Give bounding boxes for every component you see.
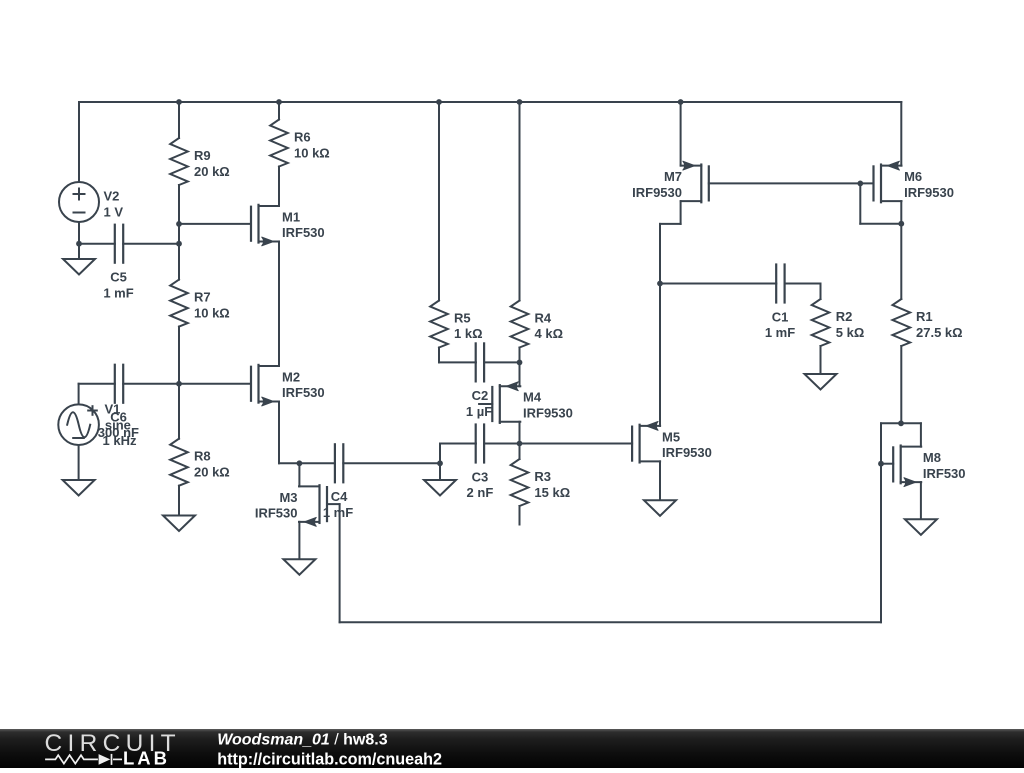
svg-text:C6: C6 (110, 409, 127, 424)
svg-text:R3: R3 (534, 469, 551, 484)
svg-text:15 kΩ: 15 kΩ (534, 485, 570, 500)
svg-text:V2: V2 (104, 189, 120, 204)
node R1-M8 (898, 420, 904, 426)
node C5-R7 (176, 241, 182, 247)
svg-text:R6: R6 (294, 130, 311, 145)
svg-text:IRF9530: IRF9530 (904, 185, 954, 200)
wire M8 source lead (920, 482, 922, 519)
svg-text:M6: M6 (904, 169, 922, 184)
capacitor C1 (775, 265, 777, 303)
wire R6 bottom lead (278, 167, 280, 206)
svg-text:R8: R8 (194, 449, 211, 464)
wire V1 bottom lead (78, 445, 80, 480)
wire M3 gate down (339, 504, 341, 622)
transistor M8 IRF530 (892, 447, 894, 481)
svg-text:R4: R4 (535, 310, 552, 325)
ground M8 (905, 519, 937, 535)
node rail-R4 (517, 99, 523, 105)
wire R9 bottom lead (178, 185, 180, 224)
ground V2 (63, 259, 95, 275)
logo diode triangle (99, 754, 111, 765)
svg-text:R7: R7 (194, 290, 211, 305)
wire R8 top lead (178, 384, 180, 439)
wire R3 bottom stub (519, 506, 521, 525)
transistor M6 IRF9530 (872, 166, 874, 200)
svg-text:IRF530: IRF530 (923, 466, 966, 481)
capacitor C4 (334, 444, 336, 482)
wire M1 source to M2 drain (278, 241, 280, 366)
ground M3 (283, 559, 315, 575)
svg-text:C1: C1 (772, 309, 789, 324)
svg-text:M3: M3 (279, 490, 297, 505)
svg-text:20 kΩ: 20 kΩ (194, 464, 230, 479)
svg-text:M1: M1 (282, 209, 300, 224)
wire C6 left lead (79, 383, 115, 385)
ground R2 (805, 374, 837, 390)
wire M7-M6 gate link (709, 182, 874, 184)
wire M8 gate lead (881, 463, 893, 465)
wire M5 source riser (659, 284, 661, 426)
wire M2 gate wire (179, 383, 251, 385)
svg-text:10 kΩ: 10 kΩ (194, 305, 230, 320)
transistor M2 IRF530 (250, 367, 252, 401)
wire gate tap down (859, 183, 861, 223)
wire C3 left lead (440, 443, 476, 445)
svg-text:C2: C2 (472, 388, 489, 403)
voltage source V1 sine (58, 404, 99, 445)
svg-text:IRF530: IRF530 (282, 225, 325, 240)
svg-text:2 nF: 2 nF (467, 485, 494, 500)
node C2-R4-M4 (517, 360, 523, 366)
svg-text:IRF9530: IRF9530 (523, 406, 573, 421)
svg-text:300 nF: 300 nF (98, 425, 139, 440)
transistor M5 IRF9530 (631, 427, 633, 461)
svg-text:1 mF: 1 mF (765, 325, 795, 340)
transistor M1 IRF530 (250, 207, 252, 241)
node M2-M3-C4 (297, 460, 303, 466)
wire R1 top lead (900, 224, 902, 299)
resistor R9 (170, 138, 188, 185)
wire V1 top lead (78, 384, 80, 405)
wire rail right drop (900, 102, 902, 166)
wire C4 left lead (299, 462, 335, 464)
resistor R3 (511, 459, 529, 506)
wire M8 gate link down (880, 423, 882, 463)
wire R5 bottom lead (438, 348, 440, 363)
resistor R8 (170, 439, 188, 486)
resistor R7 (170, 280, 188, 327)
wire R3 top lead (519, 444, 521, 460)
logo resistor zigzag glyph (45, 754, 122, 765)
wire R1 bottom lead (900, 346, 902, 423)
wire M1 gate wire (179, 223, 251, 225)
wire R2 top lead (820, 284, 822, 300)
wire M2-C4 segment (279, 462, 299, 464)
wire M7 drain step2 (660, 223, 681, 225)
resistor R2 (812, 299, 830, 346)
node V2-C5 (76, 241, 82, 247)
wire C1 left lead (660, 283, 776, 285)
wire R9-C5 segment (178, 224, 180, 244)
wire M8 gate link left (881, 422, 901, 424)
svg-text:IRF530: IRF530 (282, 385, 325, 400)
wire C2 left lead (439, 361, 476, 363)
node M8 gate (878, 461, 884, 467)
wire M2 source lead (278, 402, 280, 464)
capacitor C5 (114, 225, 116, 263)
svg-text:5 kΩ: 5 kΩ (836, 325, 865, 340)
node R9-gate (176, 221, 182, 227)
svg-text:R1: R1 (916, 309, 933, 324)
resistor R1 (893, 299, 911, 346)
capacitor C2 (475, 343, 477, 381)
transistor M4 IRF9530 (491, 387, 493, 421)
node M5-C1-M7 (657, 281, 663, 287)
svg-text:1 V: 1 V (104, 204, 124, 219)
wire R7 bottom lead (178, 327, 180, 384)
wire M4 drain lead (519, 422, 521, 444)
svg-text:R5: R5 (454, 310, 471, 325)
wire C2 right lead (484, 361, 519, 363)
svg-text:M7: M7 (664, 169, 682, 184)
capacitor C6 (114, 365, 116, 403)
wire M7 drain step1 (680, 201, 682, 224)
resistor R5 (430, 301, 448, 348)
svg-text:http://circuitlab.com/cnueah2: http://circuitlab.com/cnueah2 (217, 750, 442, 768)
wire bottom feedback run (340, 621, 881, 623)
wire C5 left lead (79, 243, 115, 245)
svg-text:1 µF: 1 µF (466, 404, 492, 419)
svg-text:IRF9530: IRF9530 (662, 445, 712, 460)
wire M8 drain drop (920, 423, 922, 446)
ground M5 (644, 500, 676, 516)
svg-text:M5: M5 (662, 429, 680, 444)
svg-text:C3: C3 (472, 469, 489, 484)
wire M3 source lead (298, 522, 300, 559)
svg-text:C4: C4 (331, 489, 348, 504)
svg-text:R9: R9 (194, 148, 211, 163)
wire M8 drain top right (901, 422, 921, 424)
wire C3 right lead (484, 443, 519, 445)
wire C5 right lead (123, 243, 179, 245)
resistor R6 (270, 120, 288, 167)
svg-text:10 kΩ: 10 kΩ (294, 145, 330, 160)
wire R8 bottom lead (178, 486, 180, 516)
wire M3 drain lead (298, 463, 300, 486)
transistor M3 IRF530 (326, 487, 328, 521)
wire C6 right lead (123, 383, 179, 385)
wire C3 riser (439, 444, 441, 464)
ground V1 (63, 480, 95, 496)
wire R2 bottom lead (820, 346, 822, 374)
resistor R4 (511, 301, 529, 348)
wire M4 gate lead (479, 403, 492, 405)
node rail-R5 (436, 99, 442, 105)
wire R4 bottom lead (519, 348, 521, 363)
svg-text:1 mF: 1 mF (323, 505, 353, 520)
node rail-R9 (176, 99, 182, 105)
svg-text:IRF530: IRF530 (255, 506, 298, 521)
svg-text:C5: C5 (110, 270, 127, 285)
wire feedback up to M8 gate (880, 464, 882, 623)
capacitor C3 (475, 425, 477, 463)
wire C1 right lead (785, 283, 821, 285)
wire M5 gate wire (520, 443, 633, 445)
node gate link tap (857, 181, 863, 187)
wire R4 top lead (519, 102, 521, 301)
wire R5 top lead (438, 102, 440, 301)
ground mid (424, 480, 456, 496)
node C3-M4-R3 (517, 441, 523, 447)
ground R8 (163, 516, 195, 532)
wire V2 top lead (78, 102, 80, 182)
wire gate tap right (860, 223, 901, 225)
wire M4 source lead (519, 362, 521, 386)
svg-text:1 kΩ: 1 kΩ (454, 326, 483, 341)
svg-text:M8: M8 (923, 450, 941, 465)
wire R6 top lead (278, 102, 280, 120)
wire M5 drain lead (659, 461, 661, 500)
node C4-gnd-C3 (437, 460, 443, 466)
wire C4 right lead (343, 462, 440, 464)
svg-text:R2: R2 (836, 309, 853, 324)
wire R9 top lead (178, 102, 180, 138)
wire R7 top lead (178, 244, 180, 280)
svg-text:M2: M2 (282, 369, 300, 384)
svg-text:20 kΩ: 20 kΩ (194, 164, 230, 179)
wire V2 bottom lead (78, 222, 80, 244)
node rail-M7 (678, 99, 684, 105)
footer bar (0, 729, 1024, 768)
wire M6 drain lead (900, 201, 902, 224)
svg-text:LAB: LAB (123, 748, 170, 768)
svg-text:Woodsman_01 / hw8.3: Woodsman_01 / hw8.3 (217, 732, 388, 749)
transistor M7 IRF9530 (708, 166, 710, 200)
node rail-R6 (276, 99, 282, 105)
wire top power rail (79, 101, 901, 103)
svg-text:27.5 kΩ: 27.5 kΩ (916, 325, 963, 340)
wire V2 ground stub (78, 244, 80, 259)
wire M7 drain step3 (659, 224, 661, 284)
svg-text:M4: M4 (523, 390, 542, 405)
svg-text:IRF9530: IRF9530 (632, 185, 682, 200)
wire gnd stub mid (439, 463, 441, 480)
node R7-C6-R8 (176, 381, 182, 387)
voltage source V2 (59, 182, 99, 222)
wire M7 source riser (680, 102, 682, 166)
svg-text:4 kΩ: 4 kΩ (535, 326, 564, 341)
wire M3 gate lead (327, 503, 340, 505)
svg-text:1 mF: 1 mF (103, 285, 133, 300)
node M6 drain-R1 (898, 221, 904, 227)
